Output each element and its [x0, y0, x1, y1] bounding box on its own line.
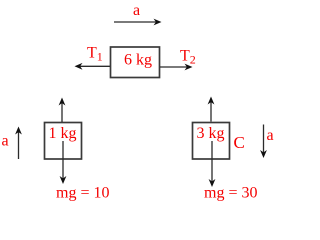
arrowhead: tension T2 (right): [185, 64, 193, 71]
wire: normal force arrow shaft (1 kg up): [61, 102, 63, 122]
arrowhead: tension T1 (left): [75, 63, 83, 70]
wire: weight arrow shaft (3 kg down): [211, 141, 213, 183]
arrowhead: normal force 3 kg (up): [208, 97, 215, 105]
svg-text:a: a: [133, 2, 140, 19]
svg-text:6 kg: 6 kg: [124, 52, 152, 69]
arrowhead: right acceleration (down): [260, 150, 267, 158]
block mass box 3 kg: [193, 123, 230, 160]
svg-text:mg = 30: mg = 30: [204, 185, 257, 202]
svg-text:T1: T1: [87, 45, 103, 64]
svg-text:a: a: [267, 127, 274, 144]
svg-text:C: C: [234, 133, 245, 152]
wire: left acceleration arrow shaft: [18, 131, 20, 159]
svg-text:a: a: [2, 133, 9, 150]
block mass box 6 kg: [111, 47, 160, 78]
arrowhead: normal force 1 kg (up): [59, 98, 66, 106]
block mass box 1 kg: [45, 123, 82, 160]
svg-text:1 kg: 1 kg: [49, 125, 77, 142]
arrowhead: weight 3 kg (down): [209, 179, 216, 187]
svg-text:3 kg: 3 kg: [197, 125, 225, 142]
arrowhead: left acceleration (up): [15, 127, 22, 135]
wire: weight arrow shaft (1 kg down): [62, 141, 64, 180]
wire: tension T2 arrow shaft: [160, 66, 188, 68]
wire: normal force arrow shaft (3 kg up): [210, 101, 212, 122]
svg-text:mg = 10: mg = 10: [56, 185, 109, 202]
arrowhead: weight 1 kg (down): [60, 176, 67, 184]
wire: tension T1 arrow shaft: [79, 65, 110, 67]
wire: top acceleration arrow shaft: [114, 21, 157, 23]
wire: right acceleration arrow shaft: [263, 125, 265, 154]
svg-text:T2: T2: [180, 48, 196, 67]
arrowhead: top acceleration arrow (right): [154, 19, 162, 26]
